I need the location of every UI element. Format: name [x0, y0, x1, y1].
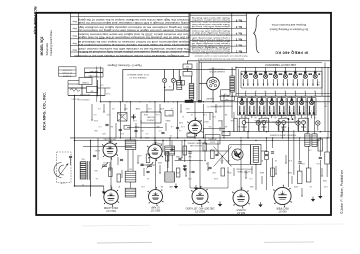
svg-text:T1: T1 — [245, 90, 247, 92]
wire — [91, 104, 93, 120]
svg-text:R-16: R-16 — [214, 177, 218, 179]
cap C3 — [105, 123, 108, 125]
svg-text:45 WATTS: 45 WATTS — [62, 75, 71, 78]
svg-text:REPRODUCER AND: REPRODUCER AND — [235, 167, 252, 170]
wire — [121, 170, 123, 178]
cap C16 — [271, 151, 274, 153]
ground — [195, 185, 197, 188]
svg-text:RECTIFIER: RECTIFIER — [276, 206, 288, 208]
wire — [215, 104, 217, 112]
svg-text:Turn the receiver dial to 1500: Turn the receiver dial to 1500 kc and ad… — [77, 33, 190, 36]
resistor R1 — [118, 113, 128, 122]
heater cell H1 — [239, 118, 249, 132]
resistor R10 zigzag — [70, 89, 80, 92]
svg-text:SW: SW — [317, 83, 320, 85]
switch section SW2-2 — [248, 98, 257, 115]
svg-text:©John F. Rider, Publisher: ©John F. Rider, Publisher — [339, 169, 344, 214]
extra top-left cluster marks — [68, 83, 79, 85]
wavemagnet dashed box — [57, 152, 72, 183]
svg-text:No. 6: No. 6 — [235, 18, 242, 22]
wire — [228, 131, 331, 133]
svg-text:560: 560 — [95, 169, 98, 171]
svg-text:10MF: 10MF — [158, 142, 162, 144]
switch contact SW1-7 — [303, 74, 307, 78]
wire — [109, 102, 111, 143]
wire — [221, 120, 223, 132]
svg-text:C-29: C-29 — [100, 84, 104, 86]
svg-text:Schematic: Schematic — [45, 42, 49, 55]
wire — [162, 141, 164, 153]
svg-text:T8: T8 — [314, 90, 316, 92]
wire — [100, 67, 102, 102]
svg-text:.05: .05 — [115, 142, 117, 144]
cap C2 — [69, 155, 72, 157]
svg-text:thermostat in the circuit: thermostat in the circuit — [191, 20, 230, 23]
wire — [247, 132, 249, 138]
wire — [212, 112, 214, 137]
tube V2 6SK7 — [148, 145, 162, 159]
cap C7 — [176, 126, 179, 128]
svg-text:1MEG: 1MEG — [165, 119, 171, 121]
svg-text:PLUG: PLUG — [210, 140, 215, 142]
svg-text:adjustments must be made with: adjustments must be made with the volume… — [77, 43, 190, 46]
wire — [143, 168, 145, 176]
tube V1 6SA7 — [103, 143, 117, 157]
wire — [83, 146, 132, 148]
svg-text:LINE CIRCUIT THERMOSTAT: LINE CIRCUIT THERMOSTAT — [264, 63, 296, 66]
svg-text:PILOT LAMPS MAZDA 51: PILOT LAMPS MAZDA 51 — [127, 73, 149, 76]
ground — [319, 194, 321, 197]
svg-text:No. 4: No. 4 — [235, 32, 242, 36]
switch S1 detail — [85, 68, 104, 72]
cap C11 — [183, 164, 186, 166]
wire — [240, 141, 242, 191]
wire — [245, 170, 247, 178]
wire — [172, 69, 174, 78]
wire — [97, 138, 99, 160]
small box tone — [165, 111, 173, 117]
wire — [261, 150, 267, 152]
ground — [312, 197, 314, 200]
svg-text:SW: SW — [225, 98, 228, 100]
svg-text:MODEL 5Q2: MODEL 5Q2 — [40, 36, 44, 55]
svg-text:tuning condenser through a 100: tuning condenser through a 100 mmfd cond… — [77, 21, 190, 24]
wire — [282, 127, 284, 138]
lamp circuit loop — [123, 68, 236, 70]
svg-text:BK: BK — [255, 94, 257, 96]
svg-text:8: 8 — [315, 69, 316, 71]
svg-text:T1: T1 — [82, 183, 84, 185]
ground — [184, 166, 186, 169]
wire — [219, 127, 221, 131]
svg-text:C-16: C-16 — [181, 125, 185, 127]
ground — [260, 202, 262, 205]
wire — [198, 61, 200, 102]
svg-text:BK: BK — [245, 94, 247, 96]
wire — [301, 188, 303, 196]
svg-text:No. 2: No. 2 — [235, 43, 242, 47]
lamp I2 — [171, 78, 175, 82]
cap C14 — [215, 153, 218, 155]
svg-text:SPEAKER FIELD SUPPLY: SPEAKER FIELD SUPPLY — [210, 105, 232, 108]
svg-text:R-1: R-1 — [112, 107, 115, 109]
switch section SW2-3 — [258, 98, 267, 115]
svg-text:C-25: C-25 — [324, 185, 328, 187]
svg-text:2: 2 — [255, 69, 256, 71]
interval label band — [245, 116, 295, 123]
svg-text:.01: .01 — [170, 134, 172, 136]
svg-text:.02: .02 — [191, 113, 193, 115]
svg-text:IF FREQ 460 KC: IF FREQ 460 KC — [275, 50, 308, 54]
cap C13 — [208, 166, 211, 168]
variable cap — [102, 164, 107, 166]
svg-text:60 CYCLES: 60 CYCLES — [62, 72, 72, 74]
svg-text:T2: T2 — [255, 90, 257, 92]
switch contact SW1-8 — [313, 74, 317, 78]
svg-text:2ND DET- AVC- 1ST AUDIO: 2ND DET- AVC- 1ST AUDIO — [185, 206, 214, 209]
wire — [212, 67, 214, 77]
power transformer T1 — [80, 161, 86, 163]
label box — [205, 135, 220, 144]
switch section SW2-8 — [307, 98, 316, 115]
svg-text:6X5-GT: 6X5-GT — [278, 209, 287, 211]
lamp socket L1 — [256, 121, 260, 125]
cap C31 — [319, 156, 322, 158]
svg-text:.01MF: .01MF — [120, 113, 125, 115]
schematic frame border — [36, 13, 331, 215]
wire — [202, 104, 204, 138]
wire — [255, 165, 257, 191]
resistor narrow strip3 left — [234, 118, 237, 132]
svg-text:1: 1 — [245, 69, 246, 71]
switch contact SW1-2 — [254, 74, 258, 78]
svg-text:R7: R7 — [118, 185, 120, 187]
svg-text:R-17: R-17 — [120, 132, 124, 134]
svg-text:RECT.: RECT. — [203, 120, 209, 122]
wire — [231, 96, 233, 118]
svg-text:R15: R15 — [301, 162, 304, 164]
svg-text:R3: R3 — [261, 159, 263, 161]
switch contact SW1-3 — [263, 74, 267, 78]
svg-text:CONTROL: CONTROL — [147, 119, 156, 121]
svg-text:line master off position: line master off position — [190, 51, 230, 54]
resistor R12 — [187, 133, 195, 137]
svg-text:C-1: C-1 — [98, 107, 101, 109]
heater element hatch — [230, 76, 234, 92]
wire — [159, 104, 161, 112]
positions table — [190, 13, 247, 53]
flasher motor M1 — [207, 77, 220, 90]
svg-text:R-5: R-5 — [107, 113, 110, 115]
svg-text:C-28: C-28 — [238, 125, 242, 127]
svg-text:460: 460 — [129, 167, 132, 169]
wire — [223, 96, 225, 138]
B+ bus — [101, 101, 331, 103]
AC connector block — [185, 100, 194, 103]
ballast hatch bar — [189, 84, 194, 100]
wire — [117, 157, 119, 165]
chassis bus double — [70, 137, 331, 139]
tube V7 — [274, 187, 291, 204]
resistor R6 — [203, 143, 207, 151]
wire — [291, 176, 293, 184]
wire — [154, 102, 156, 145]
svg-text:BK: BK — [265, 94, 267, 96]
resistor R2 — [109, 168, 113, 177]
ballast box — [177, 81, 182, 90]
svg-text:C-2: C-2 — [94, 113, 97, 115]
cap C1 — [93, 154, 96, 156]
wire — [165, 123, 167, 131]
svg-text:Six Positions in Flashing Swit: Six Positions in Flashing Switch — [269, 28, 308, 32]
svg-text:L-1: L-1 — [133, 113, 136, 115]
svg-text:.02: .02 — [310, 185, 312, 187]
svg-text:5: 5 — [285, 69, 286, 71]
loop antenna — [54, 163, 61, 178]
cap C4 — [119, 128, 122, 130]
svg-text:.25MF: .25MF — [135, 125, 140, 127]
svg-text:C-30: C-30 — [188, 177, 192, 179]
svg-text:T6: T6 — [294, 90, 296, 92]
svg-text:7: 7 — [301, 109, 302, 111]
svg-text:BK: BK — [284, 94, 286, 96]
wire — [181, 141, 183, 158]
svg-text:SW: SW — [324, 105, 327, 107]
resistor R8 — [221, 168, 225, 176]
extra dots — [91, 119, 92, 120]
polarity cross — [131, 116, 136, 118]
resistor R22 — [177, 81, 185, 86]
ground — [103, 189, 105, 192]
IF transformer T2 — [125, 140, 136, 150]
svg-text:3300: 3300 — [158, 161, 162, 163]
notes table left — [71, 13, 190, 56]
wire — [189, 154, 191, 188]
wire — [109, 162, 111, 170]
svg-text:POWER: POWER — [82, 81, 89, 83]
svg-text:R-19: R-19 — [106, 92, 110, 94]
ground — [219, 202, 221, 205]
tube V8 6X5 rect — [188, 120, 201, 133]
svg-text:6: 6 — [295, 69, 296, 71]
wire — [199, 141, 201, 189]
cap C18 — [178, 157, 181, 159]
svg-text:R-8: R-8 — [199, 119, 202, 121]
wire — [233, 112, 235, 132]
svg-text:No. 3: No. 3 — [235, 38, 242, 42]
svg-text:500,000 OHM: 500,000 OHM — [190, 144, 202, 146]
wire — [212, 90, 214, 102]
cap C6 — [161, 131, 164, 133]
svg-text:T5: T5 — [284, 90, 286, 92]
svg-text:FLASHER MOTOR: FLASHER MOTOR — [209, 70, 225, 73]
wire — [135, 123, 137, 138]
wire — [127, 127, 163, 129]
wire — [167, 152, 169, 168]
wire — [266, 138, 268, 150]
svg-text:controlled by thermostat: controlled by thermostat — [191, 27, 230, 30]
interval switch box — [221, 90, 231, 95]
wire top runs — [188, 60, 331, 62]
svg-text:.02MF: .02MF — [288, 171, 293, 173]
wire — [321, 168, 323, 176]
wire — [204, 141, 206, 161]
wire — [251, 166, 253, 174]
svg-text:C-11: C-11 — [103, 161, 107, 163]
cap C12 — [191, 170, 194, 172]
cap C30 — [298, 161, 301, 163]
svg-text:P: P — [72, 86, 73, 88]
svg-text:.006: .006 — [176, 171, 179, 173]
svg-text:C-14: C-14 — [156, 113, 160, 115]
inter strip wire — [236, 93, 331, 95]
wire — [110, 157, 112, 190]
resistor R30 — [297, 171, 302, 183]
wire — [81, 85, 83, 96]
wire — [187, 111, 214, 113]
cap C9 — [140, 163, 143, 165]
resistor R33 — [325, 152, 330, 164]
svg-text:3: 3 — [265, 69, 266, 71]
switch section SW2-6 — [287, 98, 296, 115]
heater cell H3 — [279, 118, 289, 132]
wire — [217, 141, 219, 155]
wire — [221, 155, 223, 163]
svg-text:.005: .005 — [224, 125, 227, 127]
speaker box — [229, 145, 251, 165]
svg-text:Flashing Switch Data: Flashing Switch Data — [49, 30, 53, 56]
svg-text:Figure 2—Schematic Diagram: Figure 2—Schematic Diagram — [107, 63, 141, 67]
resistor R11 — [271, 168, 275, 177]
svg-text:No. 1: No. 1 — [235, 49, 242, 53]
brace — [254, 15, 260, 53]
svg-text:R-2: R-2 — [139, 154, 142, 156]
wire — [146, 104, 148, 112]
svg-text:R-9: R-9 — [169, 113, 172, 115]
wire — [103, 104, 105, 112]
svg-text:100: 100 — [111, 125, 114, 127]
wire — [194, 134, 196, 138]
speaker cone — [232, 149, 243, 160]
svg-text:330: 330 — [186, 66, 189, 68]
wire — [199, 83, 207, 85]
svg-text:THERMOSTAT AND: THERMOSTAT AND — [208, 67, 225, 70]
cap C8 — [120, 158, 123, 160]
svg-text:T7: T7 — [304, 90, 306, 92]
choke CH hatch — [305, 134, 310, 146]
svg-text:R-6: R-6 — [209, 125, 212, 127]
switch contact SW1-5 — [283, 74, 287, 78]
svg-text:C12: C12 — [141, 185, 144, 187]
svg-text:BK: BK — [314, 94, 316, 96]
svg-text:.05MF: .05MF — [136, 107, 141, 109]
wire — [227, 167, 229, 188]
svg-text:VOLUME CONTROL: VOLUME CONTROL — [187, 142, 205, 144]
switch contact SW1-4 — [273, 74, 277, 78]
svg-text:I.F. AMP: I.F. AMP — [151, 205, 160, 208]
svg-text:L-3: L-3 — [171, 125, 174, 127]
tube V4 — [149, 190, 163, 204]
strip2 top bus — [232, 95, 331, 97]
wire — [209, 112, 211, 120]
wire — [155, 159, 157, 190]
wire — [194, 102, 196, 121]
cap C17 — [170, 148, 173, 150]
svg-text:L-6: L-6 — [169, 85, 172, 87]
svg-text:on the rear of the chassis for: on the rear of the chassis for minimum r… — [77, 36, 190, 39]
node — [164, 87, 166, 89]
svg-text:.1MF: .1MF — [250, 185, 254, 187]
svg-text:lighted for tuning purposes: lighted for tuning purposes — [192, 34, 230, 37]
svg-text:470: 470 — [229, 171, 232, 173]
lamp socket L3 — [296, 121, 300, 125]
switch section SW2-7 — [297, 98, 306, 115]
svg-text:47: 47 — [182, 115, 184, 117]
svg-text:C-3: C-3 — [250, 177, 253, 179]
wire — [68, 87, 87, 89]
wire — [159, 165, 161, 173]
wire — [96, 67, 98, 102]
lamp I1 — [162, 78, 166, 82]
switch section SW2-5 — [277, 98, 286, 115]
svg-text:L-4: L-4 — [179, 129, 182, 131]
wire — [104, 88, 106, 96]
wire — [185, 168, 187, 176]
resistor R25 — [176, 168, 180, 177]
svg-text:The dial pointer should be set: The dial pointer should be set to coinci… — [77, 47, 190, 50]
wire — [272, 138, 274, 148]
variable cap — [147, 164, 152, 166]
svg-text:C-22: C-22 — [148, 107, 152, 109]
wire — [141, 164, 155, 166]
svg-text:05MF: 05MF — [176, 155, 180, 157]
output transformer box — [251, 145, 262, 165]
line switch box — [221, 96, 235, 100]
svg-text:R-11: R-11 — [212, 115, 216, 117]
svg-text:All voltages measured from soc: All voltages measured from socket termin… — [73, 54, 184, 57]
junctions — [100, 101, 101, 102]
svg-text:8: 8 — [311, 109, 312, 111]
resistor R3 — [117, 174, 121, 182]
small box mid — [124, 126, 130, 130]
wire — [202, 128, 204, 138]
svg-text:BK: BK — [304, 94, 306, 96]
svg-text:.25: .25 — [147, 177, 149, 179]
wire — [171, 141, 173, 150]
resistor R9 — [265, 152, 269, 160]
wire — [164, 69, 166, 78]
svg-text:.5MF: .5MF — [218, 119, 222, 121]
wire — [137, 155, 139, 163]
svg-text:C-20: C-20 — [203, 113, 207, 115]
wire — [203, 127, 225, 129]
svg-text:117 VOLTS: 117 VOLTS — [62, 68, 72, 70]
scan streak bottom 2 — [97, 241, 152, 244]
ratings note box — [59, 67, 77, 76]
wire — [201, 63, 203, 102]
wire — [90, 141, 92, 197]
svg-text:rotation viewed from the front: rotation viewed from the front panel off… — [197, 57, 244, 60]
resistor R21 — [183, 72, 192, 77]
svg-text:C-5: C-5 — [99, 125, 102, 127]
svg-text:R12: R12 — [212, 171, 215, 173]
resistor R5 — [183, 146, 187, 155]
wire — [180, 104, 182, 112]
wire — [184, 141, 186, 163]
cap C10 — [146, 170, 149, 172]
wires right column — [288, 127, 290, 187]
svg-text:wise position of the gang cond: wise position of the gang condenser plat… — [77, 50, 190, 53]
